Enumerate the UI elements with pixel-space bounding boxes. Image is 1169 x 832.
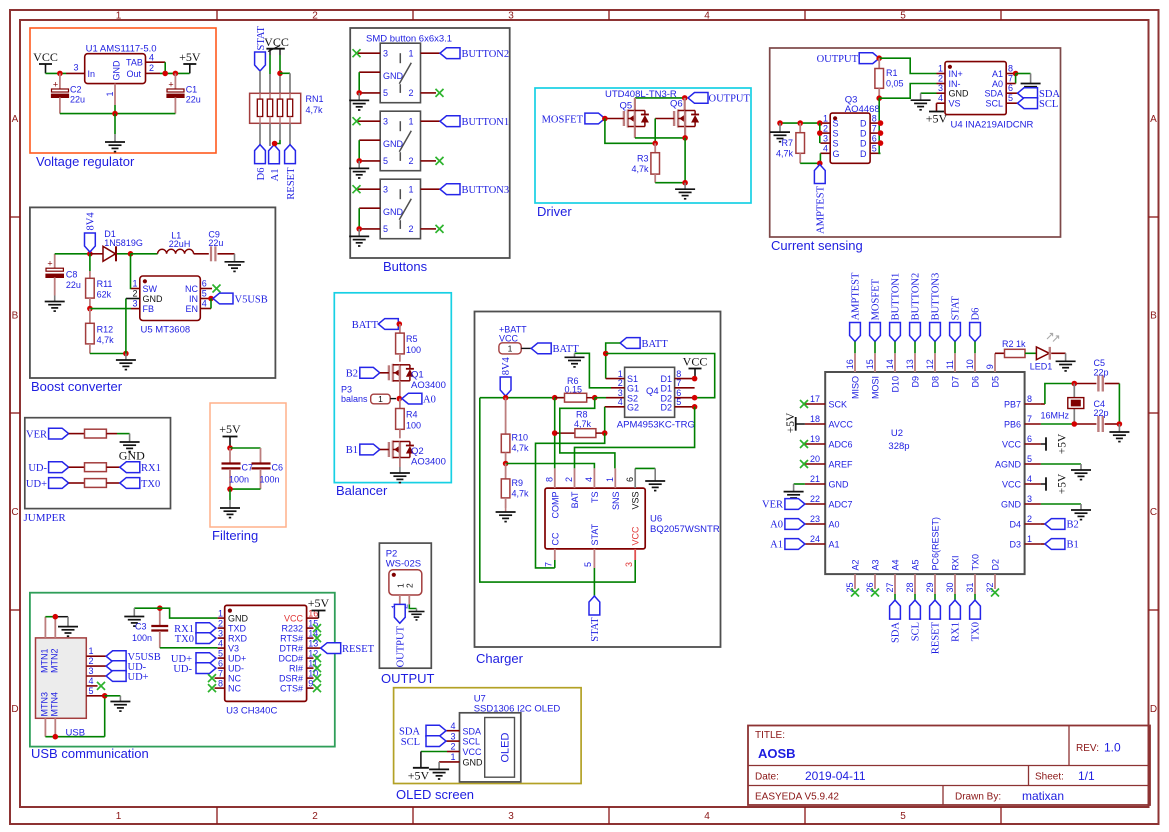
net flag V5USB	[213, 293, 268, 305]
node top	[227, 445, 233, 451]
svg-text:7: 7	[1008, 74, 1013, 84]
svg-text:14: 14	[885, 359, 895, 369]
svg-text:V3: V3	[228, 644, 239, 654]
svg-text:7: 7	[676, 378, 681, 388]
net flag UD+	[26, 478, 69, 490]
ground	[116, 354, 136, 370]
node SW	[128, 251, 134, 257]
node D3	[878, 140, 884, 146]
svg-text:C7: C7	[242, 463, 254, 473]
svg-text:18: 18	[810, 414, 820, 424]
pin 9 CTS#	[280, 678, 314, 693]
svg-text:16MHz: 16MHz	[1040, 411, 1069, 421]
node output	[682, 95, 688, 101]
node R10 R9	[503, 461, 509, 467]
pin 3 VCC	[480, 398, 635, 582]
wire PB6 net	[1041, 423, 1097, 425]
pin 6 VSS	[625, 468, 655, 488]
svg-text:A: A	[1150, 114, 1157, 125]
node	[356, 226, 362, 232]
svg-text:5: 5	[383, 88, 388, 98]
svg-text:RESET: RESET	[286, 167, 297, 200]
svg-text:4: 4	[450, 721, 455, 731]
node mosfet	[602, 116, 608, 122]
svg-text:8V4: 8V4	[85, 212, 96, 231]
capacitor C3 100n	[132, 608, 168, 648]
wire gate	[819, 153, 821, 163]
pin 13 DTR#	[279, 638, 320, 653]
no-connect	[208, 674, 216, 682]
svg-text:22: 22	[810, 494, 820, 504]
wire R7 to gate	[800, 162, 820, 164]
charger U6 BQ2057WSNTR	[545, 488, 720, 549]
svg-text:1: 1	[938, 64, 943, 74]
svg-text:D7: D7	[950, 376, 960, 388]
svg-text:3: 3	[132, 299, 137, 309]
svg-text:2: 2	[405, 583, 415, 588]
pin 1 GND	[439, 752, 483, 767]
svg-text:Driver: Driver	[537, 204, 572, 219]
net flag RESET	[321, 643, 375, 655]
wire usb gnd	[104, 696, 106, 737]
svg-text:1: 1	[823, 113, 828, 123]
pin 4	[146, 53, 166, 74]
svg-text:Q6: Q6	[670, 99, 683, 110]
connector P3 balans	[341, 385, 396, 405]
ground	[1071, 504, 1091, 520]
svg-text:3: 3	[383, 185, 388, 195]
svg-text:2: 2	[312, 11, 318, 22]
svg-text:VCC: VCC	[284, 614, 304, 624]
ground	[220, 500, 240, 518]
power +5V VCC4	[1041, 473, 1069, 494]
wire Q6 source	[684, 127, 686, 138]
node gnd	[682, 180, 688, 186]
ground	[45, 296, 65, 312]
ground	[911, 93, 931, 110]
pin 4 V3	[218, 638, 239, 653]
wire Q1 source	[399, 381, 401, 399]
pin 15 wire	[865, 342, 875, 373]
svg-text:27: 27	[885, 582, 895, 592]
wire source to gnd	[684, 138, 686, 183]
wire SNS net	[560, 398, 615, 469]
svg-text:R10: R10	[512, 433, 529, 443]
net flag UD+	[106, 671, 149, 683]
svg-text:U3 CH340C: U3 CH340C	[226, 706, 277, 717]
svg-text:6: 6	[1027, 434, 1032, 444]
svg-text:+5V: +5V	[785, 412, 797, 433]
net flag SDA	[1018, 88, 1061, 100]
svg-text:5: 5	[383, 224, 388, 234]
pin 32	[985, 574, 995, 592]
wire source rail	[780, 122, 820, 124]
wire GND pin	[359, 140, 380, 161]
svg-text:4,7k: 4,7k	[631, 164, 649, 174]
svg-text:VER: VER	[762, 500, 783, 511]
net flag SDA	[399, 725, 446, 737]
svg-text:+5V: +5V	[1057, 473, 1069, 494]
svg-text:7: 7	[1027, 414, 1032, 424]
svg-text:GND: GND	[383, 71, 404, 81]
svg-text:SNS: SNS	[611, 492, 621, 511]
svg-text:11: 11	[945, 360, 955, 369]
svg-text:15: 15	[865, 359, 875, 369]
transistor Q1 AO3400	[389, 364, 446, 391]
svg-text:PB6: PB6	[1004, 420, 1021, 430]
svg-text:UD+: UD+	[128, 672, 149, 683]
svg-text:A1: A1	[829, 540, 840, 550]
pin 5 IN	[200, 289, 211, 299]
title block	[748, 726, 1150, 806]
svg-text:8: 8	[1027, 394, 1032, 404]
svg-text:1: 1	[605, 477, 615, 482]
wire	[1118, 384, 1120, 425]
svg-text:TX0: TX0	[175, 634, 194, 645]
svg-text:Current sensing: Current sensing	[771, 238, 863, 253]
svg-text:R232: R232	[281, 624, 303, 634]
net flag D6	[255, 145, 267, 181]
resistor R11	[86, 271, 113, 309]
svg-text:RESET: RESET	[342, 644, 375, 655]
ground	[429, 762, 449, 779]
pin 5 STAT	[583, 549, 594, 596]
pin 5 UD+	[218, 648, 247, 663]
wire drain rail	[635, 97, 685, 99]
pin 16 VCC	[284, 608, 319, 623]
pin 10 DSR#	[279, 668, 318, 683]
svg-text:2: 2	[149, 63, 154, 73]
svg-text:D: D	[1150, 704, 1157, 715]
svg-text:RXI: RXI	[950, 555, 960, 570]
svg-text:VCC: VCC	[33, 50, 58, 64]
connector P2 WS-02S	[386, 549, 422, 610]
wire COMP net	[554, 398, 556, 469]
pin 19	[805, 434, 825, 444]
svg-text:ADC6: ADC6	[829, 440, 853, 450]
pin 10 wire	[965, 342, 975, 373]
node In	[57, 71, 63, 77]
wire to gnd	[1016, 73, 1031, 75]
svg-text:8V4: 8V4	[501, 356, 512, 375]
wire AGND	[1041, 463, 1081, 465]
svg-text:C2: C2	[70, 85, 82, 95]
svg-text:4,7k: 4,7k	[97, 335, 115, 345]
wire	[46, 72, 67, 74]
svg-text:Buttons: Buttons	[383, 259, 428, 274]
svg-text:MTN1: MTN1	[40, 649, 50, 674]
wire to gnd	[229, 489, 231, 500]
pin 4	[86, 676, 97, 686]
node VCC-RESET	[277, 71, 283, 77]
svg-text:5: 5	[218, 648, 223, 658]
pin 12 DCD#	[278, 648, 318, 663]
net flag TX0	[120, 478, 160, 490]
svg-text:4: 4	[704, 811, 710, 822]
capacitor C1	[167, 73, 201, 113]
svg-text:Voltage regulator: Voltage regulator	[36, 154, 135, 169]
net flag BATT2	[620, 338, 668, 350]
svg-text:+5V: +5V	[219, 422, 241, 436]
capacitor C5 22p	[1094, 358, 1120, 392]
svg-text:2: 2	[823, 123, 828, 133]
svg-text:D4: D4	[1009, 520, 1021, 530]
svg-text:A5: A5	[910, 559, 920, 570]
svg-text:5: 5	[383, 156, 388, 166]
node D1	[692, 376, 698, 382]
svg-text:2: 2	[618, 378, 623, 388]
node D1	[878, 120, 884, 126]
wire STAT	[259, 71, 261, 93]
svg-text:8: 8	[545, 477, 555, 482]
resistor R8	[556, 410, 605, 438]
svg-text:2: 2	[564, 477, 574, 482]
svg-text:VCC: VCC	[499, 334, 519, 344]
transistor Q5	[620, 101, 649, 128]
pin 1	[937, 64, 946, 74]
svg-text:MOSI: MOSI	[870, 376, 880, 399]
pin 1 SW	[131, 254, 140, 289]
svg-text:100: 100	[406, 345, 421, 355]
svg-text:3: 3	[218, 628, 223, 638]
net flag B1	[1041, 539, 1079, 551]
svg-text:1: 1	[218, 608, 223, 618]
svg-text:3: 3	[450, 731, 455, 741]
ground	[784, 484, 804, 501]
svg-text:LED1: LED1	[1030, 362, 1053, 372]
pin 8 A1	[1006, 64, 1015, 74]
wire	[269, 49, 271, 94]
wire c3 gnd	[134, 607, 160, 609]
block OLED screen	[394, 688, 581, 802]
svg-text:BUTTON1: BUTTON1	[462, 117, 510, 128]
no-connect	[208, 684, 216, 692]
svg-text:CC: CC	[550, 532, 560, 545]
node S2	[817, 130, 823, 136]
no-connect	[313, 664, 321, 672]
svg-text:BAT: BAT	[570, 491, 580, 508]
svg-text:BUTTON1: BUTTON1	[891, 273, 902, 321]
wire to IN+	[879, 58, 936, 73]
node S1 net	[603, 351, 609, 357]
net flag B2	[1041, 519, 1079, 531]
svg-text:Balancer: Balancer	[336, 483, 388, 498]
svg-text:D: D	[860, 149, 867, 159]
net flag MOSFET	[870, 278, 882, 341]
resistor R5	[396, 324, 421, 362]
svg-text:AMPTEST: AMPTEST	[851, 272, 862, 320]
svg-text:10: 10	[965, 359, 975, 369]
svg-text:1: 1	[508, 344, 513, 354]
svg-text:3: 3	[1027, 494, 1032, 504]
net flag UD-	[106, 661, 147, 673]
resistor R7	[776, 123, 805, 163]
pin 8	[1025, 394, 1041, 404]
svg-text:GND: GND	[228, 614, 249, 624]
svg-text:2: 2	[938, 74, 943, 84]
no-connect	[800, 400, 808, 408]
svg-text:3: 3	[508, 11, 514, 22]
svg-text:1N5819G: 1N5819G	[104, 238, 143, 248]
svg-text:1: 1	[408, 185, 413, 195]
net flag RX1	[174, 623, 216, 635]
svg-text:Q4: Q4	[646, 386, 659, 397]
svg-text:BUTTON2: BUTTON2	[462, 49, 510, 60]
pin 1	[86, 646, 106, 656]
svg-text:100n: 100n	[260, 475, 280, 485]
no-connect	[991, 589, 999, 597]
svg-text:C8: C8	[66, 270, 78, 280]
net flag SCL	[401, 736, 446, 748]
svg-text:A0: A0	[770, 520, 783, 531]
svg-text:22u: 22u	[186, 95, 201, 105]
net flag B2	[346, 367, 389, 379]
resistor R2 1k	[1002, 339, 1026, 358]
node R8 left	[552, 430, 558, 436]
node R6 right	[592, 395, 598, 401]
ground	[110, 696, 130, 711]
pin 1 GND	[218, 608, 249, 623]
svg-text:U6: U6	[650, 514, 662, 525]
no-connect	[313, 654, 321, 662]
svg-text:MOSFET: MOSFET	[871, 278, 882, 320]
net flag B1	[346, 444, 389, 456]
svg-text:9: 9	[985, 364, 995, 369]
svg-text:5: 5	[1008, 93, 1013, 103]
svg-text:GND: GND	[949, 89, 970, 99]
svg-text:Drawn By:: Drawn By:	[955, 792, 1001, 803]
svg-text:22u: 22u	[70, 95, 85, 105]
ground	[565, 353, 585, 367]
switch SW2	[380, 111, 420, 171]
pin 22	[805, 494, 825, 504]
pin 7 NC	[215, 668, 242, 683]
pin 30	[945, 574, 955, 594]
svg-text:6: 6	[872, 133, 877, 143]
svg-text:+: +	[47, 259, 52, 269]
node S1	[817, 120, 823, 126]
svg-text:Q1: Q1	[411, 370, 424, 381]
pin 14 RTS#	[280, 628, 318, 643]
svg-text:UD-: UD-	[28, 463, 47, 474]
svg-text:VSS: VSS	[631, 492, 641, 510]
pin 31	[965, 574, 975, 594]
no-connect	[436, 89, 444, 97]
svg-text:1/1: 1/1	[1078, 769, 1095, 783]
svg-text:2019-04-11: 2019-04-11	[805, 769, 866, 783]
pin 2 wire	[421, 160, 437, 162]
node xtal top	[1072, 381, 1078, 387]
svg-text:A3: A3	[870, 559, 880, 570]
node 8v4	[503, 395, 509, 401]
svg-text:GND: GND	[463, 758, 484, 768]
resistor R6	[555, 376, 595, 402]
ground	[675, 183, 695, 199]
svg-text:2: 2	[1027, 514, 1032, 524]
svg-text:13: 13	[905, 359, 915, 369]
svg-text:4,7k: 4,7k	[512, 443, 530, 453]
pin G2 wire	[605, 407, 625, 433]
svg-text:FB: FB	[143, 304, 155, 314]
net flag D6	[970, 308, 982, 342]
svg-text:COMP: COMP	[550, 492, 560, 519]
svg-text:8: 8	[872, 113, 877, 123]
svg-text:1: 1	[89, 646, 94, 656]
block Filtering	[210, 403, 286, 543]
svg-text:U1 AMS1117-5.0: U1 AMS1117-5.0	[86, 44, 157, 55]
svg-text:P3: P3	[341, 385, 352, 395]
svg-text:G1: G1	[627, 383, 639, 393]
svg-text:5: 5	[1027, 454, 1032, 464]
svg-text:C1: C1	[186, 85, 198, 95]
wire right rail	[606, 354, 715, 398]
no-connect	[851, 589, 859, 597]
wire D pins	[879, 98, 880, 153]
net flag SCL	[910, 594, 922, 641]
wire Q6 drain	[684, 98, 686, 111]
svg-text:3: 3	[823, 133, 828, 143]
capacitor C6	[252, 448, 284, 489]
net flag BUTTON2	[440, 48, 509, 60]
pin 18	[805, 414, 825, 424]
wire PB7 net	[1041, 384, 1097, 405]
net flag TX0	[175, 633, 216, 645]
svg-text:30: 30	[945, 582, 955, 592]
resistor R9	[501, 464, 529, 509]
svg-text:1: 1	[408, 49, 413, 59]
ground	[1056, 353, 1076, 371]
wire	[117, 253, 131, 255]
node R7	[797, 120, 803, 126]
svg-text:3: 3	[938, 83, 943, 93]
wire shield top	[45, 617, 68, 638]
no-connect	[213, 285, 221, 293]
pin 2 TXD	[218, 618, 247, 633]
svg-text:Boost converter: Boost converter	[31, 379, 123, 394]
wire A1-A0	[1015, 74, 1017, 84]
net flag BUTTON2	[910, 273, 922, 342]
svg-text:C5: C5	[1094, 358, 1106, 368]
svg-text:+5V: +5V	[408, 769, 430, 783]
wire RESET	[289, 123, 291, 144]
svg-text:B2: B2	[1067, 520, 1079, 531]
mcu U2 328p	[825, 372, 1024, 574]
node C1	[173, 71, 179, 77]
no-connect	[353, 185, 361, 193]
svg-text:1: 1	[450, 752, 455, 762]
interface U3 CH340C	[225, 605, 307, 716]
node source	[682, 135, 688, 141]
svg-text:SCL: SCL	[911, 622, 922, 641]
wire	[275, 123, 280, 143]
pin 2 wire	[421, 228, 437, 230]
svg-text:+: +	[168, 80, 173, 90]
net flag V5USB	[106, 651, 161, 663]
net flag STAT	[255, 26, 267, 71]
net flag BUTTON1	[890, 273, 902, 342]
net flag A0	[402, 393, 436, 405]
svg-text:R1: R1	[886, 68, 898, 78]
svg-text:R12: R12	[97, 325, 114, 335]
wire S2	[595, 397, 625, 399]
svg-text:NC: NC	[185, 284, 198, 294]
svg-text:B: B	[12, 311, 19, 322]
block Buttons	[350, 28, 510, 274]
svg-text:22p: 22p	[1094, 408, 1109, 418]
svg-text:BUTTON3: BUTTON3	[462, 185, 510, 196]
node batt	[397, 321, 403, 327]
pin 3 wire	[357, 52, 380, 54]
